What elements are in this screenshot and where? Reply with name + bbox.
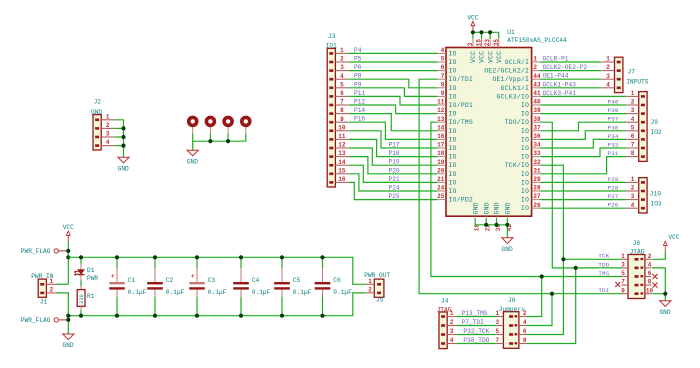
U1 right pins bbox=[532, 62, 541, 208]
junction TMS bbox=[540, 274, 544, 278]
svg-text:36: 36 bbox=[533, 133, 541, 140]
junction C6 bottom bbox=[320, 314, 324, 318]
svg-text:P17: P17 bbox=[389, 142, 400, 149]
wire D1 to R1 bbox=[80, 280, 82, 286]
net labels J9 bbox=[608, 99, 619, 158]
svg-text:25: 25 bbox=[437, 193, 445, 200]
svg-text:IO: IO bbox=[521, 154, 529, 161]
capacitor C3 bbox=[189, 257, 226, 315]
svg-text:P7_TDI: P7_TDI bbox=[462, 319, 485, 326]
svg-text:2: 2 bbox=[450, 319, 454, 326]
svg-text:3: 3 bbox=[606, 73, 610, 80]
svg-text:PWR IN: PWR IN bbox=[31, 273, 54, 280]
svg-text:PWR_FLAG: PWR_FLAG bbox=[21, 317, 51, 324]
net labels P17..P25 bbox=[389, 142, 400, 201]
wire GCLK3-P41 bbox=[540, 95, 626, 97]
wire P13_TMS bbox=[456, 316, 496, 318]
svg-text:R1: R1 bbox=[87, 293, 95, 300]
svg-text:13: 13 bbox=[338, 150, 346, 157]
power VCC at J8 bbox=[663, 234, 679, 252]
wire J8 pin4 to GND rail bbox=[652, 268, 666, 294]
connector J7 bbox=[602, 56, 649, 93]
svg-text:GCLK1-P43: GCLK1-P43 bbox=[543, 81, 577, 88]
svg-text:14: 14 bbox=[437, 124, 445, 131]
wire P28 bbox=[540, 190, 626, 192]
svg-text:IO: IO bbox=[449, 50, 457, 57]
svg-text:GCLK3-P41: GCLK3-P41 bbox=[543, 90, 577, 97]
no-connect J8 pin8 bbox=[653, 283, 658, 288]
svg-text:19: 19 bbox=[437, 159, 445, 166]
wire J8 pin10 to GND bbox=[652, 294, 666, 301]
svg-text:IO: IO bbox=[521, 179, 529, 186]
svg-text:P39: P39 bbox=[608, 107, 619, 114]
svg-text:IO: IO bbox=[449, 188, 457, 195]
svg-text:1: 1 bbox=[606, 56, 610, 63]
svg-text:7: 7 bbox=[340, 99, 344, 106]
svg-text:P28: P28 bbox=[608, 185, 619, 192]
wire P31 bbox=[540, 157, 626, 174]
junction VCC b bbox=[479, 30, 483, 34]
wire P16 bbox=[349, 122, 438, 139]
junction hole3 bbox=[226, 139, 230, 143]
svg-text:VCC: VCC bbox=[668, 234, 679, 241]
svg-text:GCLK3/IO: GCLK3/IO bbox=[497, 93, 530, 100]
wire J2 pin3 bbox=[114, 136, 123, 138]
U1 left pins bbox=[437, 53, 446, 199]
wire GND rail below U1 bbox=[475, 224, 507, 226]
junction J2 pin2 bbox=[121, 126, 125, 130]
junction TDI bbox=[550, 292, 554, 296]
svg-text:J1: J1 bbox=[40, 298, 48, 305]
svg-text:TCK/IO: TCK/IO bbox=[505, 162, 529, 169]
svg-text:0.1µF: 0.1µF bbox=[333, 289, 352, 296]
svg-text:IO1: IO1 bbox=[326, 43, 337, 50]
svg-text:21: 21 bbox=[437, 176, 445, 183]
svg-text:JTAG: JTAG bbox=[437, 307, 452, 314]
junction C4 bottom bbox=[239, 314, 243, 318]
svg-text:GCLR-P1: GCLR-P1 bbox=[543, 56, 569, 63]
junction C4 top bbox=[239, 255, 243, 259]
svg-text:IO: IO bbox=[521, 205, 529, 212]
svg-text:GND: GND bbox=[659, 309, 670, 316]
svg-text:IO: IO bbox=[521, 136, 529, 143]
junction hole2 bbox=[208, 139, 212, 143]
svg-text:3: 3 bbox=[621, 262, 625, 269]
svg-text:3: 3 bbox=[450, 328, 454, 335]
wire GCLK2-OE2-P2 bbox=[540, 70, 601, 72]
svg-text:5: 5 bbox=[495, 328, 499, 335]
power VCC above U1 bbox=[467, 14, 478, 32]
svg-text:IO: IO bbox=[449, 85, 457, 92]
junction GND c bbox=[505, 223, 509, 227]
junction C3 bottom bbox=[195, 314, 199, 318]
svg-text:Jumpers: Jumpers bbox=[499, 306, 525, 313]
svg-text:26: 26 bbox=[533, 202, 541, 209]
svg-text:3: 3 bbox=[340, 64, 344, 71]
svg-text:6: 6 bbox=[340, 90, 344, 97]
connector J6 bbox=[495, 297, 526, 348]
wire R1 to rail bbox=[80, 310, 82, 316]
svg-text:38: 38 bbox=[533, 116, 541, 123]
net labels jumper nets bbox=[462, 310, 490, 344]
wire P33 bbox=[540, 148, 626, 157]
svg-text:TMS: TMS bbox=[598, 270, 609, 277]
wire mounting holes to GND bbox=[193, 134, 246, 141]
svg-text:GND: GND bbox=[494, 202, 501, 214]
capacitor C2 bbox=[147, 257, 184, 315]
svg-text:1: 1 bbox=[106, 113, 110, 120]
svg-text:P12: P12 bbox=[354, 99, 365, 106]
svg-text:C4: C4 bbox=[252, 277, 260, 284]
svg-text:INPUTS: INPUTS bbox=[626, 78, 649, 85]
svg-text:6: 6 bbox=[631, 133, 635, 140]
U1 left pin numbers bbox=[437, 47, 445, 200]
svg-text:TDI: TDI bbox=[598, 287, 609, 294]
svg-text:4: 4 bbox=[648, 262, 652, 269]
svg-text:2: 2 bbox=[368, 287, 372, 294]
svg-text:P16: P16 bbox=[354, 116, 365, 123]
svg-text:P36: P36 bbox=[608, 124, 619, 131]
svg-text:1: 1 bbox=[631, 90, 635, 97]
svg-text:31: 31 bbox=[533, 167, 541, 174]
svg-text:D1: D1 bbox=[87, 267, 95, 274]
connector J3 bbox=[326, 33, 349, 187]
wire P27 bbox=[540, 199, 626, 201]
svg-text:GCLR/I: GCLR/I bbox=[505, 59, 529, 66]
junction VCC a bbox=[471, 30, 475, 34]
svg-text:GCLK1/I: GCLK1/I bbox=[501, 85, 530, 92]
svg-text:1: 1 bbox=[621, 253, 625, 260]
svg-text:8: 8 bbox=[340, 107, 344, 114]
svg-text:35: 35 bbox=[493, 39, 500, 47]
svg-text:P26: P26 bbox=[608, 202, 619, 209]
junction R1 bottom bbox=[79, 314, 83, 318]
junction D1 top bbox=[79, 255, 83, 259]
svg-text:24: 24 bbox=[437, 185, 445, 192]
svg-text:16: 16 bbox=[437, 133, 445, 140]
wire P40 bbox=[540, 104, 626, 106]
connector J9 bbox=[626, 90, 662, 161]
svg-text:4: 4 bbox=[340, 73, 344, 80]
power VCC at power input bbox=[63, 224, 74, 242]
svg-text:0.1µF: 0.1µF bbox=[128, 289, 147, 296]
svg-text:32: 32 bbox=[533, 159, 541, 166]
svg-text:4: 4 bbox=[450, 337, 454, 344]
svg-text:TDO/IO: TDO/IO bbox=[505, 119, 529, 126]
wire TDI from U1 pin7 bbox=[419, 79, 622, 294]
connector J5 bbox=[364, 272, 390, 303]
junction GND b bbox=[494, 223, 498, 227]
wire top power rail bbox=[68, 257, 365, 284]
svg-text:3: 3 bbox=[106, 131, 110, 138]
svg-text:VCC: VCC bbox=[496, 51, 503, 63]
wire P32_TCK bbox=[456, 334, 496, 336]
svg-text:7: 7 bbox=[621, 279, 625, 286]
svg-text:9: 9 bbox=[441, 90, 445, 97]
svg-text:7: 7 bbox=[495, 337, 499, 344]
net labels TCK TDO TMS TDI bbox=[598, 253, 609, 294]
wire P20 bbox=[349, 157, 438, 174]
wire P37 bbox=[540, 122, 626, 131]
svg-text:IO: IO bbox=[449, 136, 457, 143]
svg-text:IO: IO bbox=[449, 162, 457, 169]
svg-text:9: 9 bbox=[340, 116, 344, 123]
svg-text:VCC: VCC bbox=[487, 51, 494, 63]
svg-text:23: 23 bbox=[484, 39, 491, 47]
net labels P4..P16 bbox=[354, 47, 365, 123]
ground mounting holes bbox=[187, 150, 198, 165]
wire P24 bbox=[349, 174, 438, 191]
svg-text:4: 4 bbox=[106, 139, 110, 146]
svg-text:J10: J10 bbox=[650, 191, 661, 198]
svg-text:PWR: PWR bbox=[87, 275, 98, 282]
svg-text:J3: J3 bbox=[328, 33, 336, 40]
svg-text:P32_TCK: P32_TCK bbox=[463, 328, 489, 335]
svg-text:J6: J6 bbox=[508, 297, 516, 304]
svg-text:P19: P19 bbox=[389, 159, 400, 166]
svg-text:0.1µF: 0.1µF bbox=[208, 289, 227, 296]
svg-text:2: 2 bbox=[631, 99, 635, 106]
junction TCK bbox=[561, 257, 565, 261]
wire J2 pin4 bbox=[114, 145, 123, 147]
diode D1 (LED PWR) bbox=[74, 257, 99, 282]
connector J10 bbox=[626, 176, 662, 213]
junction C3 top bbox=[195, 255, 199, 259]
junction C5 bottom bbox=[280, 314, 284, 318]
svg-text:P27: P27 bbox=[608, 193, 619, 200]
ground at J8 bbox=[659, 301, 670, 316]
svg-text:IO: IO bbox=[521, 111, 529, 118]
svg-text:GND: GND bbox=[62, 342, 73, 349]
svg-text:IO3: IO3 bbox=[651, 200, 662, 207]
connector J4 bbox=[437, 297, 457, 348]
wire P9 bbox=[349, 88, 438, 97]
U1 left pin names bbox=[449, 50, 473, 203]
svg-text:C3: C3 bbox=[208, 277, 216, 284]
svg-text:P4: P4 bbox=[354, 47, 362, 54]
svg-text:39: 39 bbox=[533, 107, 541, 114]
svg-text:4: 4 bbox=[523, 319, 527, 326]
net labels GCLR/GCLK bbox=[543, 56, 588, 97]
svg-text:5: 5 bbox=[621, 270, 625, 277]
svg-text:J5: J5 bbox=[376, 297, 384, 304]
svg-text:P8: P8 bbox=[354, 73, 362, 80]
svg-text:GND: GND bbox=[118, 165, 129, 172]
svg-text:11: 11 bbox=[437, 99, 445, 106]
svg-text:2: 2 bbox=[648, 253, 652, 260]
svg-text:IO: IO bbox=[449, 179, 457, 186]
svg-text:IO: IO bbox=[521, 145, 529, 152]
connector J2 bbox=[91, 99, 114, 150]
svg-text:IO/PD1: IO/PD1 bbox=[449, 102, 473, 109]
capacitor C1 bbox=[109, 257, 146, 315]
junction J8 gnd bbox=[663, 292, 667, 296]
junction C2 bottom bbox=[153, 314, 157, 318]
junction C1 top bbox=[115, 255, 119, 259]
svg-text:GND: GND bbox=[472, 202, 479, 214]
svg-text:JTAG: JTAG bbox=[630, 248, 645, 255]
svg-text:44: 44 bbox=[533, 73, 541, 80]
junction J2 pin4 bbox=[121, 144, 125, 148]
U1 top pin names VCC bbox=[470, 51, 503, 63]
U1 top pin numbers bbox=[467, 39, 500, 47]
svg-text:2: 2 bbox=[340, 56, 344, 63]
junction VCC c bbox=[488, 30, 492, 34]
wire TMS branch to J6 pin2 bbox=[527, 277, 542, 317]
svg-text:IO: IO bbox=[449, 171, 457, 178]
svg-text:OE1-P44: OE1-P44 bbox=[543, 73, 569, 80]
no-connect J8 pin6 bbox=[653, 274, 658, 279]
svg-text:OE2/GCLK2/I: OE2/GCLK2/I bbox=[484, 68, 529, 75]
svg-text:P24: P24 bbox=[389, 185, 400, 192]
junction C2 top bbox=[153, 255, 157, 259]
svg-text:1: 1 bbox=[340, 47, 344, 54]
svg-text:8: 8 bbox=[631, 150, 635, 157]
junction C1 bottom bbox=[115, 314, 119, 318]
wire P5 bbox=[349, 61, 438, 63]
svg-text:3: 3 bbox=[495, 319, 499, 326]
wire TCK from U1 pin32 bbox=[540, 165, 622, 259]
svg-text:1: 1 bbox=[631, 176, 635, 183]
wire P38_TDO bbox=[456, 343, 496, 345]
svg-text:IO/PD2: IO/PD2 bbox=[449, 197, 473, 204]
svg-text:34: 34 bbox=[533, 142, 541, 149]
svg-text:GND: GND bbox=[502, 246, 513, 253]
svg-text:P21: P21 bbox=[389, 176, 400, 183]
svg-text:P25: P25 bbox=[389, 193, 400, 200]
svg-text:20: 20 bbox=[437, 167, 445, 174]
svg-text:27: 27 bbox=[533, 193, 541, 200]
svg-text:GND: GND bbox=[483, 202, 490, 214]
wire VCC pin stubs bbox=[481, 32, 483, 39]
svg-text:IO: IO bbox=[449, 145, 457, 152]
svg-text:P11: P11 bbox=[354, 90, 365, 97]
svg-text:P31: P31 bbox=[608, 150, 619, 157]
svg-text:15: 15 bbox=[476, 39, 483, 47]
svg-text:IO: IO bbox=[449, 59, 457, 66]
svg-text:GND: GND bbox=[187, 158, 198, 165]
svg-text:2: 2 bbox=[533, 64, 537, 71]
svg-text:J7: J7 bbox=[628, 69, 636, 76]
capacitor C6 bbox=[315, 257, 352, 315]
junction TDO bbox=[574, 266, 578, 270]
svg-text:5: 5 bbox=[631, 124, 635, 131]
wire P29 bbox=[540, 181, 626, 183]
svg-text:9: 9 bbox=[621, 287, 625, 294]
svg-text:TCK: TCK bbox=[598, 253, 609, 260]
svg-text:6: 6 bbox=[441, 64, 445, 71]
connector J1 bbox=[31, 273, 56, 306]
junction bot rail T bbox=[66, 314, 70, 318]
svg-text:IO: IO bbox=[521, 171, 529, 178]
net labels J10 bbox=[608, 176, 619, 209]
svg-text:C5: C5 bbox=[293, 277, 301, 284]
junction C6 top bbox=[320, 255, 324, 259]
wire VCC vertical at J1 bbox=[67, 242, 69, 284]
svg-text:5: 5 bbox=[340, 81, 344, 88]
svg-text:P13_TMS: P13_TMS bbox=[462, 310, 488, 317]
svg-text:43: 43 bbox=[533, 81, 541, 88]
svg-text:IO: IO bbox=[449, 93, 457, 100]
svg-text:7: 7 bbox=[441, 73, 445, 80]
wire P25 bbox=[349, 182, 438, 199]
svg-text:3: 3 bbox=[631, 193, 635, 200]
svg-text:C6: C6 bbox=[333, 277, 341, 284]
op-amp U1 body (IC ATF150xAS_PLCC44) bbox=[446, 29, 567, 216]
svg-text:GND: GND bbox=[91, 109, 102, 116]
wire P8 bbox=[349, 79, 438, 88]
wire P18 bbox=[349, 139, 438, 156]
svg-text:4: 4 bbox=[631, 116, 635, 123]
svg-text:OE1/Vpp/I: OE1/Vpp/I bbox=[492, 76, 529, 83]
wire GCLR-P1 bbox=[540, 61, 601, 63]
svg-text:VCC: VCC bbox=[467, 14, 478, 21]
capacitor C4 bbox=[233, 257, 270, 315]
svg-text:P18: P18 bbox=[389, 150, 400, 157]
wire J1 pin2 to GND bbox=[56, 293, 68, 334]
svg-text:+: + bbox=[111, 273, 115, 280]
svg-text:0.1µF: 0.1µF bbox=[166, 289, 185, 296]
svg-text:14: 14 bbox=[338, 159, 346, 166]
svg-text:ATF150xAS_PLCC44: ATF150xAS_PLCC44 bbox=[507, 37, 567, 44]
svg-text:J8: J8 bbox=[633, 240, 641, 247]
wire J8 pin2 to VCC bbox=[652, 252, 666, 259]
junction C5 top bbox=[280, 255, 284, 259]
svg-text:2: 2 bbox=[631, 185, 635, 192]
svg-text:P9: P9 bbox=[354, 81, 362, 88]
wire P12 bbox=[349, 105, 438, 114]
wire VCC rail above U1 bbox=[473, 32, 499, 39]
svg-text:4: 4 bbox=[441, 47, 445, 54]
svg-text:1: 1 bbox=[533, 56, 537, 63]
svg-text:2: 2 bbox=[106, 122, 110, 129]
wire TMS from U1 pin13 bbox=[431, 122, 622, 276]
wire P26 bbox=[540, 207, 626, 209]
svg-text:8: 8 bbox=[648, 279, 652, 286]
wire J1 pin1 bbox=[56, 283, 68, 285]
no-connect J8 pin7 bbox=[615, 282, 620, 287]
svg-text:5: 5 bbox=[441, 56, 445, 63]
ground below U1 bbox=[502, 238, 513, 253]
svg-text:8: 8 bbox=[523, 337, 527, 344]
wire J2 pin1 to GND bbox=[114, 120, 123, 157]
svg-text:IO/TMS: IO/TMS bbox=[449, 119, 473, 126]
svg-text:2: 2 bbox=[606, 64, 610, 71]
svg-text:VCC: VCC bbox=[63, 224, 74, 231]
junction GND a bbox=[484, 223, 488, 227]
mounting hole MH4 bbox=[242, 117, 250, 135]
junction J2 pin3 bbox=[121, 135, 125, 139]
wire bottom power rail bbox=[68, 293, 365, 316]
svg-text:6: 6 bbox=[648, 270, 652, 277]
svg-text:IO: IO bbox=[449, 68, 457, 75]
power flag bottom bbox=[21, 317, 69, 324]
svg-text:J9: J9 bbox=[651, 119, 659, 126]
svg-text:P38_TDO: P38_TDO bbox=[463, 337, 489, 344]
svg-text:18: 18 bbox=[437, 150, 445, 157]
svg-text:40: 40 bbox=[533, 99, 541, 106]
resistor R1 bbox=[77, 286, 95, 310]
svg-text:3: 3 bbox=[631, 107, 635, 114]
svg-text:37: 37 bbox=[533, 124, 541, 131]
svg-text:28: 28 bbox=[533, 185, 541, 192]
wire GCLK1-P43 bbox=[540, 87, 601, 89]
svg-text:GND: GND bbox=[505, 202, 512, 214]
svg-text:C1: C1 bbox=[128, 277, 136, 284]
wire J2 pin2 bbox=[114, 127, 123, 129]
svg-text:IO: IO bbox=[449, 128, 457, 135]
svg-text:8: 8 bbox=[441, 81, 445, 88]
